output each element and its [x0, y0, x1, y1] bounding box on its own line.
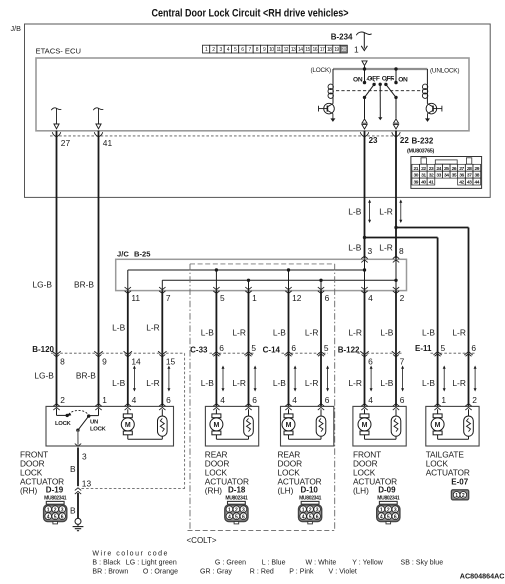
rear RH lock actuator box [205, 406, 258, 446]
svg-text:3: 3 [82, 451, 87, 461]
svg-text:6: 6 [394, 514, 397, 520]
svg-text:L-R: L-R [379, 207, 393, 217]
svg-text:L-R: L-R [348, 327, 362, 337]
connector icon E-07 [451, 490, 468, 500]
svg-text:41: 41 [103, 138, 113, 148]
boundary terminal pin 6 x=216.4 [212, 352, 220, 355]
node: rail junction right switch [394, 67, 397, 70]
motor M rear RH [212, 414, 221, 418]
main wire 27 / LG-B [56, 131, 58, 407]
svg-text:42: 42 [459, 180, 464, 186]
svg-text:W : White: W : White [306, 560, 337, 567]
svg-text:8: 8 [399, 246, 404, 256]
COLT variant dashed enclosure [190, 263, 335, 265]
svg-text:1: 1 [354, 45, 359, 55]
svg-text:6: 6 [291, 343, 296, 353]
svg-text:L-R: L-R [305, 327, 319, 337]
svg-text:L-B: L-B [112, 322, 125, 332]
svg-text:2: 2 [309, 507, 312, 513]
svg-text:L-B: L-B [348, 243, 361, 253]
svg-text:1: 1 [380, 507, 383, 513]
motor M front RH [123, 414, 132, 418]
boundary terminal pin 7 x=396.0 [392, 351, 400, 354]
J/C internal L-R bus [162, 279, 396, 281]
svg-text:5: 5 [441, 343, 446, 353]
pin 13 pass-through [75, 488, 81, 491]
boundary terminal pin 6 x=288.5 [284, 352, 292, 355]
svg-text:L-R: L-R [452, 327, 466, 337]
wire L-R x=248.5 [248, 291, 250, 407]
svg-text:MU802341: MU802341 [299, 496, 322, 502]
svg-text:C-33: C-33 [190, 345, 208, 354]
svg-text:4: 4 [380, 514, 383, 520]
svg-text:7: 7 [166, 293, 171, 303]
J/C pin 6 [318, 291, 324, 294]
svg-text:M: M [125, 422, 131, 429]
svg-text:AC804864AC: AC804864AC [460, 571, 505, 580]
svg-text:GR : Gray: GR : Gray [200, 569, 232, 576]
ETACS-ECU box [36, 58, 469, 131]
svg-text:1: 1 [302, 507, 305, 513]
connector B-234 pin strip 1-20 [203, 45, 210, 53]
motor M tailgate [433, 414, 442, 418]
lock/unlock switch contacts [364, 69, 366, 83]
svg-text:Wire colour code: Wire colour code [92, 550, 169, 557]
svg-text:3: 3 [242, 507, 245, 513]
boundary terminal pin 5 x=248.5 [244, 352, 252, 355]
svg-text:(LH): (LH) [353, 486, 369, 496]
svg-text:LOCK: LOCK [55, 421, 72, 427]
boundary terminal pin 5 x=437.6 [433, 352, 441, 355]
svg-text:1: 1 [441, 395, 446, 405]
main wire 22 / L-R [395, 131, 397, 259]
wire L-B x=127.8 [127, 291, 129, 407]
svg-text:L-R: L-R [305, 378, 319, 388]
svg-text:4: 4 [132, 395, 137, 405]
boundary terminal pin 9 x=98.5 [94, 351, 102, 354]
svg-text:6: 6 [242, 514, 245, 520]
boundary terminal pin 6 x=364.5 [360, 351, 368, 354]
svg-text:L-B: L-B [273, 378, 286, 388]
front door lock actuator (RH) box [46, 406, 174, 446]
svg-text:40: 40 [421, 180, 426, 186]
svg-text:SB : Sky blue: SB : Sky blue [401, 560, 444, 567]
svg-text:2: 2 [60, 395, 65, 405]
svg-text:M: M [435, 422, 441, 429]
svg-text:5: 5 [251, 343, 256, 353]
lock relay coil L1 [332, 69, 334, 84]
svg-text:23: 23 [369, 136, 378, 145]
svg-text:2: 2 [400, 293, 405, 303]
terminal 22 internal [395, 97, 397, 118]
svg-text:L-R: L-R [146, 378, 160, 388]
connector E-11 boundary [431, 352, 476, 354]
svg-text:ON: ON [398, 77, 408, 84]
switch common to ground arrow [379, 84, 381, 117]
svg-text:2: 2 [462, 493, 465, 499]
svg-text:41: 41 [429, 180, 434, 186]
boundary terminal pin 6 x=468.5 [464, 352, 472, 355]
wire from B-234 pin 1 (arrow down) [356, 32, 371, 35]
connector C-33 boundary [210, 352, 256, 354]
svg-text:9: 9 [102, 356, 107, 366]
unlock relay coil L2 [426, 69, 428, 84]
svg-text:6: 6 [219, 343, 224, 353]
svg-text:B-120: B-120 [32, 345, 54, 354]
J/C pin 4 [361, 291, 367, 294]
svg-text:4: 4 [220, 395, 225, 405]
connector pass-through x=98.5 [94, 132, 102, 137]
svg-text:OFF: OFF [367, 76, 380, 83]
svg-text:J/B: J/B [11, 24, 22, 33]
svg-text:L-B: L-B [422, 327, 435, 337]
svg-text:G : Green: G : Green [215, 560, 246, 567]
svg-text:L-B: L-B [422, 378, 435, 388]
transistor Q2 (unlock driver) [426, 103, 437, 114]
rear LH lock actuator box [281, 406, 334, 446]
svg-text:B-25: B-25 [134, 250, 151, 259]
connector pass-through x=364.5 [360, 132, 368, 137]
connector C-14 boundary [282, 352, 329, 354]
J/C top pins 3, 8 [361, 256, 367, 259]
svg-text:4: 4 [292, 395, 297, 405]
actuator entries front RH [53, 404, 59, 407]
ETACS pin terminal x=56.5 [51, 108, 61, 110]
svg-text:4: 4 [302, 514, 305, 520]
svg-text:B: B [70, 464, 76, 474]
svg-text:L-B: L-B [112, 378, 125, 388]
svg-text:4: 4 [228, 514, 231, 520]
svg-text:14: 14 [131, 356, 141, 366]
svg-text:L-B: L-B [380, 327, 393, 337]
svg-text:L-B: L-B [201, 378, 214, 388]
svg-text:LG : Light green: LG : Light green [126, 560, 177, 567]
resistor element rear LH [316, 416, 326, 436]
wire L-B x=288.5 [288, 291, 290, 407]
svg-text:3: 3 [316, 507, 319, 513]
connector pass-through x=396 [392, 132, 400, 137]
node: L-R branch to tailgate [394, 226, 397, 229]
svg-text:D-19: D-19 [46, 486, 64, 495]
svg-text:3: 3 [394, 507, 397, 513]
svg-text:Y : Yellow: Y : Yellow [352, 560, 384, 567]
branch wire to tailgate L-R [396, 227, 469, 229]
svg-text:(RH): (RH) [205, 486, 222, 496]
svg-text:LG-B: LG-B [34, 370, 54, 380]
svg-text:12: 12 [292, 293, 302, 303]
svg-text:B : Black: B : Black [92, 560, 121, 567]
wire L-R x=364.5 [364, 291, 366, 407]
svg-text:6: 6 [316, 514, 319, 520]
svg-text:D-18: D-18 [228, 486, 246, 495]
ETACS pin terminal x=98.5 [93, 108, 103, 110]
main wire 41 / BR-B [98, 131, 100, 407]
svg-text:ETACS- ECU: ETACS- ECU [36, 47, 81, 56]
svg-text:6: 6 [368, 356, 373, 366]
J/C pin 7 [159, 291, 165, 294]
svg-text:UN: UN [90, 420, 98, 426]
svg-text:5: 5 [387, 514, 390, 520]
svg-text:(LH): (LH) [278, 486, 294, 496]
svg-text:MU802341: MU802341 [44, 496, 67, 502]
svg-text:ACTUATOR: ACTUATOR [426, 468, 470, 478]
svg-text:MU802341: MU802341 [377, 496, 400, 502]
svg-text:(LOCK): (LOCK) [311, 67, 332, 74]
svg-text:2: 2 [54, 507, 57, 513]
J/C internal L-B bus [128, 269, 365, 271]
terminal 23 internal [364, 97, 366, 118]
connector B-120 boundary [51, 352, 185, 354]
svg-text:R : Red: R : Red [250, 569, 274, 576]
svg-text:34: 34 [444, 173, 449, 179]
svg-text:P : Pink: P : Pink [289, 569, 314, 576]
svg-text:7: 7 [400, 356, 405, 366]
tailgate lock actuator box [426, 406, 479, 446]
boundary terminal pin 14 x=127.8 [124, 351, 132, 354]
svg-text:22: 22 [400, 136, 409, 145]
svg-text:BR-B: BR-B [76, 370, 96, 380]
svg-text:6: 6 [325, 395, 330, 405]
J/C pin 12 [285, 291, 291, 294]
svg-text:1: 1 [228, 507, 231, 513]
J/C pin 5 [213, 291, 219, 294]
wire L-B x=396.0 [395, 291, 397, 407]
resistor element rear RH [244, 416, 254, 436]
node: L-B branch to tailgate [363, 236, 366, 239]
svg-text:1: 1 [252, 293, 257, 303]
svg-text:M: M [286, 422, 292, 429]
svg-text:L-B: L-B [380, 378, 393, 388]
svg-text:J/C: J/C [117, 250, 129, 259]
svg-text:BR-B: BR-B [74, 280, 94, 290]
wire L-B x=216.4 [215, 291, 217, 407]
svg-text:L-R: L-R [379, 243, 393, 253]
J/B junction block box [25, 24, 491, 197]
transistor Q1 (lock driver) [324, 103, 335, 114]
svg-text:1: 1 [47, 507, 50, 513]
resistor element front LH [391, 416, 401, 436]
svg-text:V : Violet: V : Violet [329, 569, 357, 576]
svg-text:4: 4 [368, 395, 373, 405]
svg-text:39: 39 [413, 180, 418, 186]
svg-text:L-R: L-R [348, 378, 362, 388]
svg-text:L-R: L-R [452, 378, 466, 388]
motor M rear LH [284, 414, 293, 418]
svg-text:(MU803765): (MU803765) [407, 148, 434, 154]
svg-text:E-07: E-07 [451, 477, 468, 486]
switch arms [372, 83, 375, 86]
svg-text:B: B [70, 506, 76, 516]
D-19 door connector dashed boundary [184, 353, 186, 488]
connector pass-through x=56.5 [52, 132, 60, 137]
svg-text:ON: ON [353, 77, 363, 84]
svg-text:L-R: L-R [146, 322, 160, 332]
svg-text:6: 6 [252, 395, 257, 405]
svg-text:B-122: B-122 [338, 345, 360, 354]
svg-text:2: 2 [387, 507, 390, 513]
boundary terminal pin 5 x=321.0 [317, 352, 325, 355]
svg-text:1: 1 [455, 493, 458, 499]
svg-text:6: 6 [166, 395, 171, 405]
J/C pin 11 [125, 291, 131, 294]
svg-text:5: 5 [54, 514, 57, 520]
pin 1 terminal triangle [362, 61, 367, 66]
svg-text:6: 6 [471, 343, 476, 353]
wire L-R x=162.3 [161, 291, 163, 407]
svg-text:2: 2 [235, 507, 238, 513]
svg-text:5: 5 [324, 343, 329, 353]
node: rail junction pin1 [363, 67, 366, 70]
J/C pass-through verticals pins 3-4, 8-2 [364, 259, 366, 290]
front RH pin 3 ground wire [77, 448, 79, 487]
J/C pin 2 [393, 291, 399, 294]
lock/unlock switch in actuator [56, 409, 58, 416]
svg-text:M: M [362, 422, 368, 429]
main wire 23 / L-B [364, 131, 366, 259]
svg-text:L : Blue: L : Blue [262, 560, 286, 567]
svg-text:4: 4 [368, 293, 373, 303]
svg-text:5: 5 [220, 293, 225, 303]
ground (lock transistor emitter) [330, 118, 335, 122]
svg-text:4: 4 [47, 514, 50, 520]
branch wire to tailgate L-B [365, 237, 438, 239]
ground G (body earth) [75, 518, 81, 524]
svg-text:11: 11 [131, 293, 140, 303]
svg-text:L-B: L-B [201, 327, 214, 337]
J/C pin 1 [245, 291, 251, 294]
relay supply rail [333, 68, 427, 70]
svg-text:6: 6 [325, 293, 330, 303]
svg-text:1: 1 [102, 395, 107, 405]
svg-text:6: 6 [61, 514, 64, 520]
svg-text:E-11: E-11 [415, 344, 432, 353]
svg-text:LG-B: LG-B [32, 280, 52, 290]
svg-text:2: 2 [472, 395, 477, 405]
svg-text:B-234: B-234 [331, 33, 353, 42]
resistor element front RH [158, 416, 168, 436]
svg-text:BR : Brown: BR : Brown [92, 569, 128, 576]
svg-text:33: 33 [436, 173, 441, 179]
svg-text:D-09: D-09 [378, 486, 396, 495]
svg-text:(UNLOCK): (UNLOCK) [430, 68, 459, 75]
mechanical link dashed [336, 90, 423, 92]
svg-text:D-10: D-10 [301, 486, 319, 495]
svg-text:L-B: L-B [348, 207, 361, 217]
svg-text:13: 13 [82, 478, 92, 488]
svg-text:B-232: B-232 [412, 136, 434, 145]
svg-text:6: 6 [400, 395, 405, 405]
svg-text:<COLT>: <COLT> [187, 536, 217, 545]
svg-text:3: 3 [368, 246, 373, 256]
svg-text:Central Door Lock Circuit <RH: Central Door Lock Circuit <RH drive vehi… [151, 8, 348, 20]
svg-text:5: 5 [309, 514, 312, 520]
svg-text:44: 44 [475, 180, 480, 186]
svg-text:(RH): (RH) [20, 486, 37, 496]
svg-text:35: 35 [452, 173, 457, 179]
ground (unlock transistor emitter) [425, 118, 430, 122]
connector B-122 boundary [358, 352, 404, 354]
svg-text:43: 43 [467, 180, 472, 186]
svg-text:3: 3 [61, 507, 64, 513]
svg-text:15: 15 [166, 356, 176, 366]
front LH lock actuator box [353, 406, 406, 446]
wire L-R x=321.0 [320, 291, 322, 407]
svg-text:5: 5 [235, 514, 238, 520]
svg-text:O : Orange: O : Orange [143, 569, 178, 576]
boundary terminal pin 8 x=56.5 [52, 351, 60, 354]
boundary terminal pin 15 x=162.3 [158, 351, 166, 354]
J/B to body connector dashed boundary [50, 135, 401, 137]
svg-text:8: 8 [60, 356, 65, 366]
svg-text:M: M [213, 422, 219, 429]
svg-text:LOCK: LOCK [90, 426, 107, 432]
svg-text:27: 27 [61, 138, 71, 148]
svg-text:L-B: L-B [273, 327, 286, 337]
svg-text:MU802341: MU802341 [225, 496, 248, 502]
svg-text:C-14: C-14 [263, 345, 281, 354]
svg-text:L-R: L-R [232, 378, 246, 388]
motor M front LH [360, 414, 369, 418]
resistor element tailgate [464, 416, 474, 436]
svg-text:L-R: L-R [232, 327, 246, 337]
